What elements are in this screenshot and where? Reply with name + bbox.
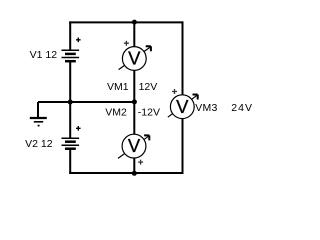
wire left top (top wire to V1 +) [69, 21, 71, 50]
wire bottom (node -12V) [69, 172, 183, 174]
wire right vertical [182, 21, 184, 174]
voltmeter VM3 [168, 95, 198, 119]
battery V1 [62, 50, 80, 61]
svg-text:V: V [176, 96, 189, 117]
junction bottom (node -12V dot) [132, 171, 137, 176]
svg-text:V2 12: V2 12 [25, 138, 53, 150]
junction middle (0V node dot) [132, 99, 137, 104]
junction top (node +12V dot) [132, 20, 137, 25]
svg-text:V: V [128, 135, 141, 156]
battery V2 [62, 138, 80, 149]
ground [30, 102, 47, 126]
wire left middle (V1 - to V2 +) [69, 62, 71, 139]
svg-text:VM1: VM1 [107, 81, 129, 93]
voltmeter VM1 [119, 46, 151, 70]
wire ground net (0V node) [38, 101, 135, 103]
svg-text:V: V [128, 48, 141, 69]
wire left bottom (V2 - to bottom wire) [69, 149, 71, 175]
wire top (node +12V) [69, 21, 183, 23]
battery V1 plus polarity mark [76, 38, 81, 43]
voltmeter VM3 plus polarity mark [172, 89, 177, 94]
voltmeter VM2 plus polarity mark [138, 160, 143, 165]
svg-text:12V: 12V [139, 81, 158, 93]
svg-text:V1 12: V1 12 [30, 49, 58, 61]
svg-text:24V: 24V [231, 102, 253, 114]
junction left middle (0V node dot) [68, 100, 73, 105]
wire middle column (VM1/VM2 branch) [133, 21, 135, 174]
svg-text:-12V: -12V [138, 107, 160, 119]
voltmeter VM2 [118, 134, 149, 158]
svg-text:VM2: VM2 [105, 107, 127, 119]
battery V2 plus polarity mark [76, 126, 81, 131]
voltmeter VM1 plus polarity mark [124, 41, 129, 46]
svg-text:VM3: VM3 [195, 102, 218, 114]
